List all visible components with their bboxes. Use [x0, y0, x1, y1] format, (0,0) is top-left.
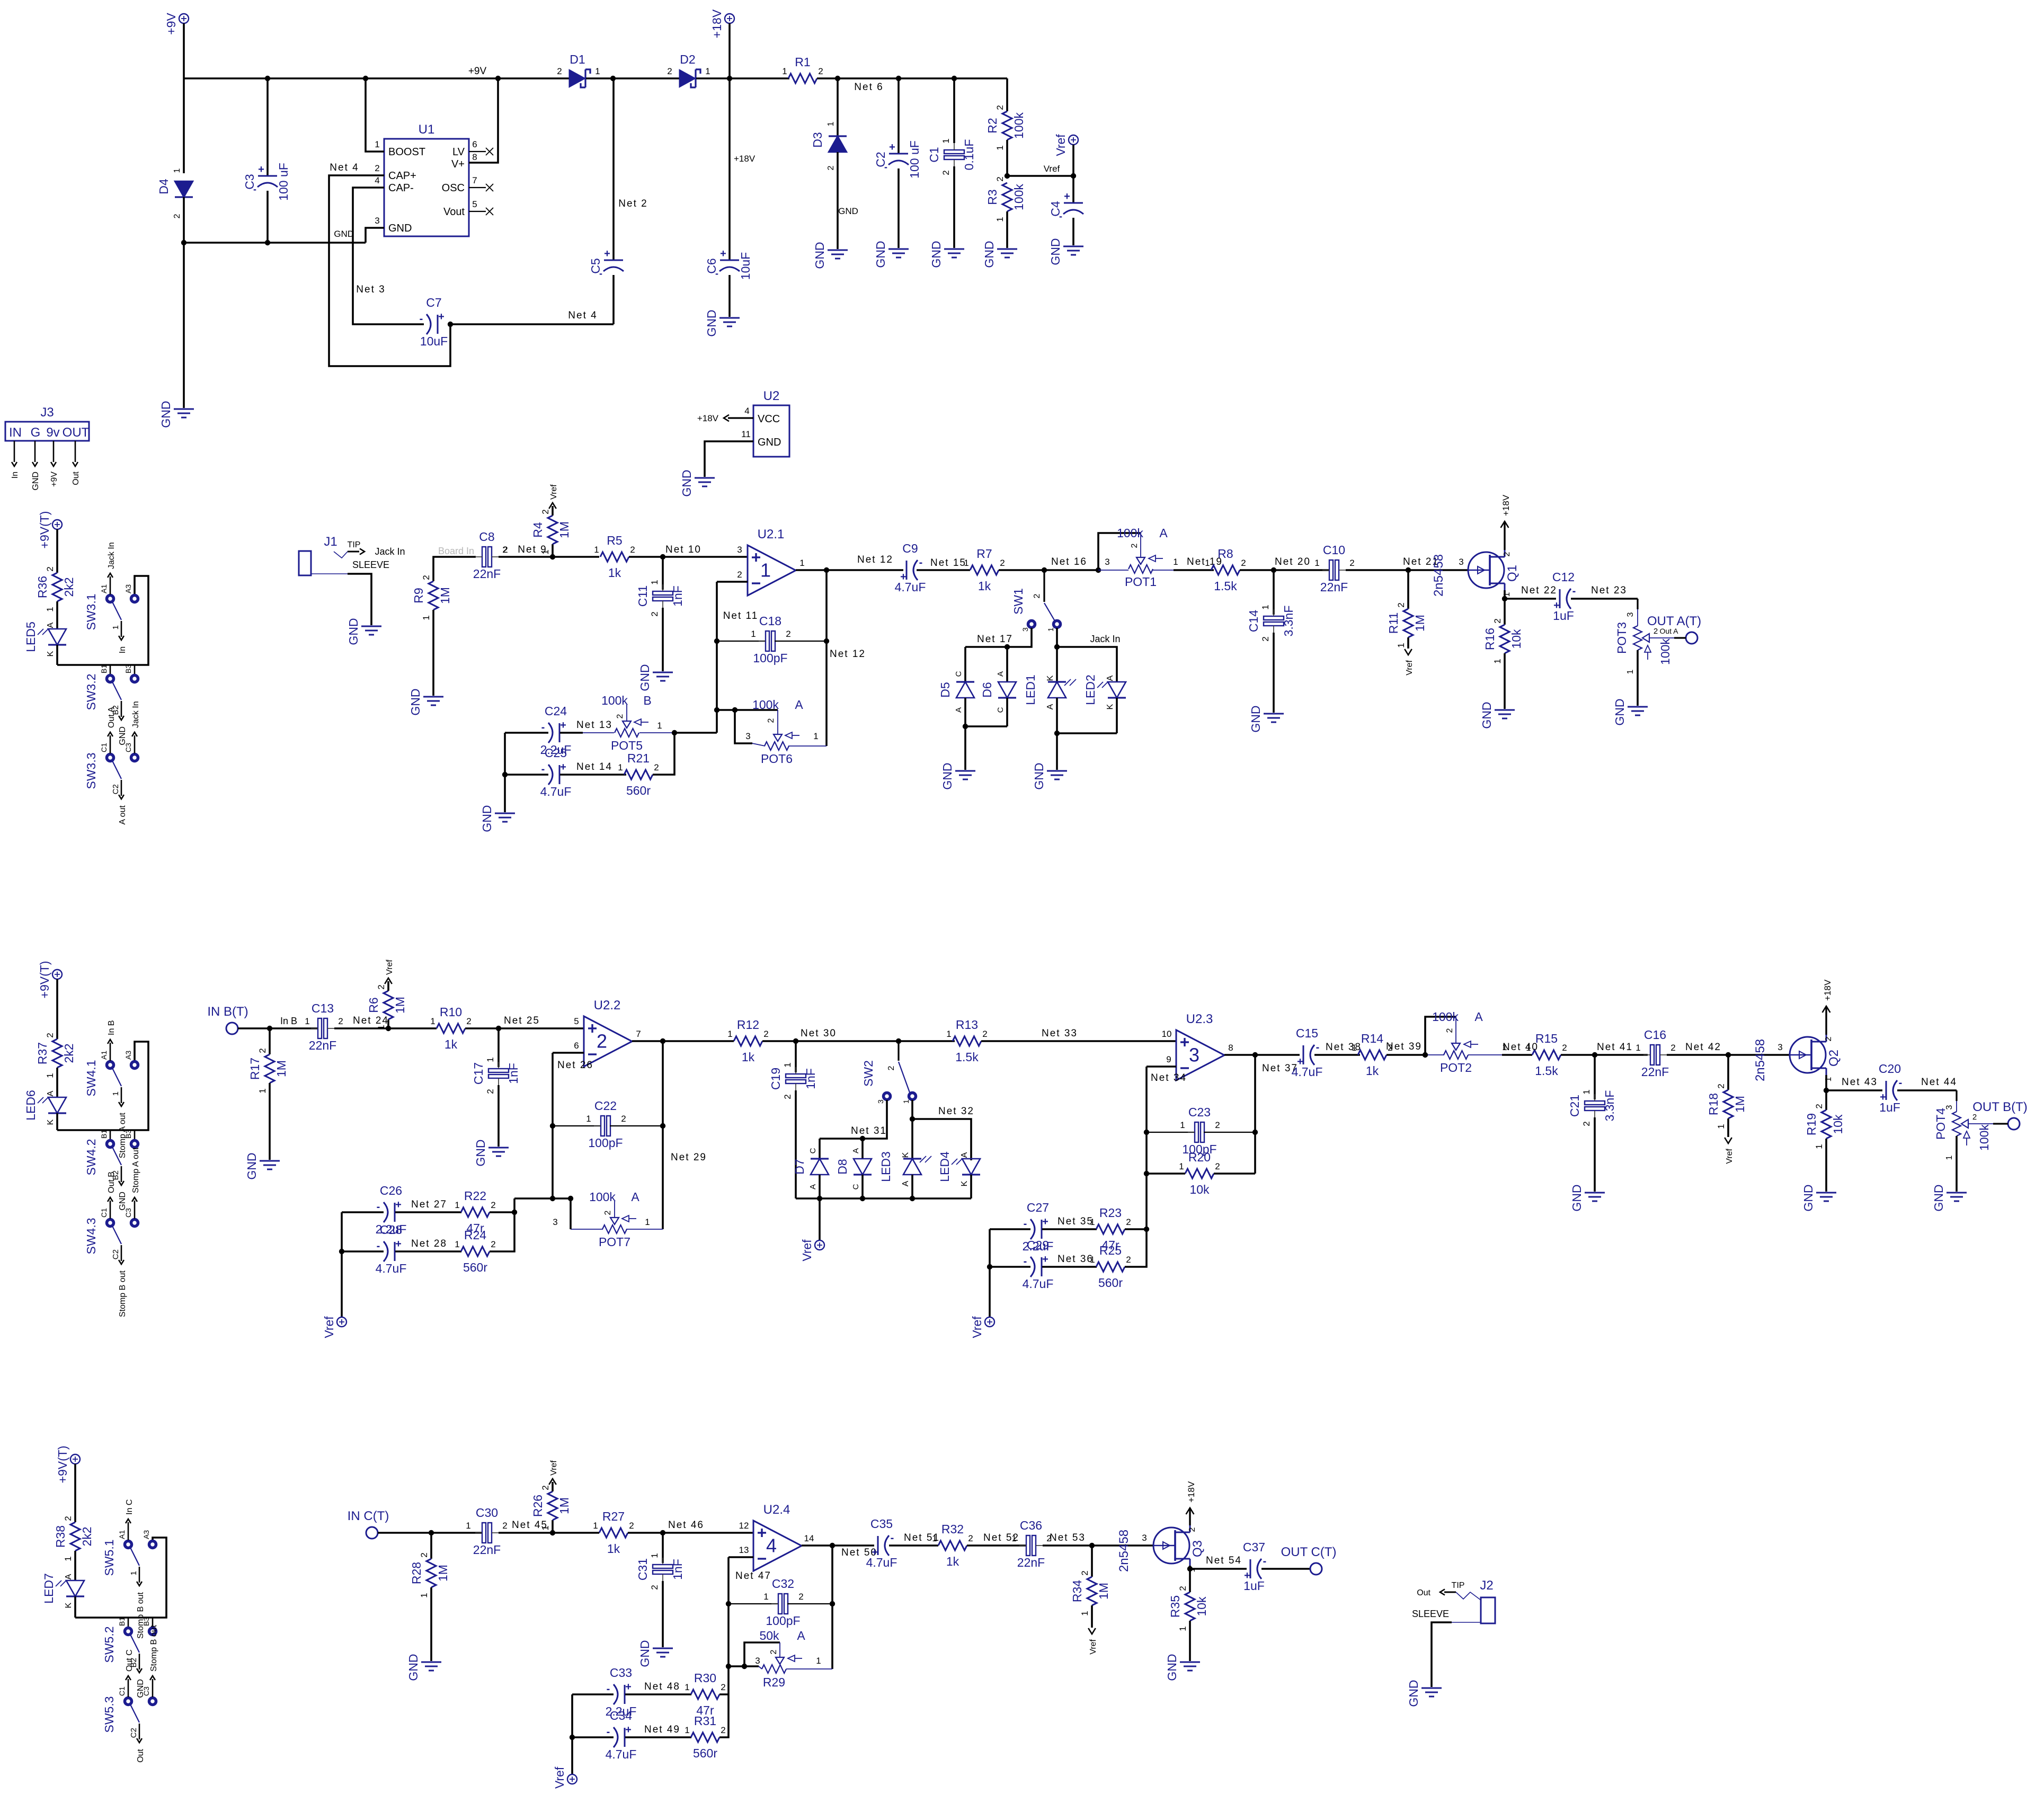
svg-text:2: 2: [721, 1725, 725, 1735]
svg-text:R23: R23: [1099, 1206, 1122, 1220]
svg-text:A: A: [960, 1152, 969, 1158]
svg-text:SW3.1: SW3.1: [84, 593, 98, 630]
svg-text:Jack In: Jack In: [131, 701, 140, 728]
svg-text:12: 12: [739, 1521, 749, 1531]
wire Net 4 to C5 bottom: [450, 323, 614, 325]
junction U2.4 output: [830, 1543, 835, 1548]
wire Net50 vertical: [831, 1546, 833, 1669]
svg-text:R16: R16: [1483, 628, 1497, 650]
IC U2 power pins: [753, 405, 789, 457]
svg-text:GND: GND: [929, 241, 943, 268]
svg-text:U1: U1: [419, 122, 435, 137]
ground for R3: [997, 248, 1017, 250]
svg-text:22nF: 22nF: [473, 567, 501, 581]
svg-text:2: 2: [1396, 602, 1406, 607]
svg-text:Vref: Vref: [553, 1766, 566, 1789]
svg-text:2: 2: [45, 1033, 55, 1037]
svg-text:+: +: [560, 720, 566, 731]
svg-text:+: +: [395, 1199, 402, 1211]
junction Net17 at D6: [1005, 644, 1010, 650]
svg-text:1: 1: [1260, 605, 1270, 609]
svg-text:2: 2: [1000, 558, 1005, 568]
svg-text:In C: In C: [125, 1499, 134, 1515]
svg-text:1uF: 1uF: [1243, 1579, 1265, 1593]
svg-text:Vref: Vref: [549, 484, 558, 500]
svg-text:3: 3: [553, 1217, 557, 1227]
junction Net 24: [386, 1026, 391, 1031]
svg-text:C26: C26: [380, 1184, 402, 1197]
junction Net 9: [550, 554, 555, 559]
junction top bus x505: [265, 76, 270, 81]
port IN B(T): [226, 1023, 238, 1034]
svg-text:R7: R7: [976, 547, 992, 561]
svg-text:C: C: [954, 671, 963, 677]
resistor R38 2k2: [74, 1464, 76, 1522]
svg-text:Net 26: Net 26: [557, 1060, 593, 1071]
svg-text:IN B(T): IN B(T): [207, 1005, 248, 1019]
U2 pin4 VCC to +18V: [728, 417, 753, 419]
svg-text:2: 2: [338, 1016, 343, 1026]
svg-text:3: 3: [1778, 1042, 1782, 1052]
svg-text:1: 1: [995, 217, 1005, 221]
svg-text:+9V: +9V: [468, 66, 487, 77]
svg-text:POT6: POT6: [761, 752, 793, 766]
svg-text:GND: GND: [159, 401, 173, 428]
svg-text:2: 2: [485, 1089, 495, 1094]
diode D5: [964, 647, 966, 682]
capacitor C11 1nF: [662, 557, 664, 590]
svg-text:1: 1: [964, 558, 968, 568]
svg-text:C3: C3: [142, 1686, 150, 1696]
svg-text:A: A: [851, 1148, 860, 1153]
svg-text:100 uF: 100 uF: [277, 163, 290, 201]
Q2 drain to +18V: [1825, 1006, 1827, 1035]
junction Net 10: [660, 554, 665, 559]
svg-text:1nF: 1nF: [671, 585, 685, 607]
capacitor C17 1nF: [497, 1028, 500, 1067]
supply Vref under D7: [815, 1240, 824, 1250]
svg-text:1uF: 1uF: [1553, 609, 1574, 623]
capacitor C23 100pF: [1147, 1132, 1195, 1133]
junction R11 top: [1406, 567, 1411, 573]
capacitor C1 0.1uF: [953, 78, 955, 143]
potentiometer POT3 100k output attenuator: [1633, 626, 1642, 650]
svg-text:Net 12: Net 12: [830, 649, 866, 660]
svg-text:+: +: [604, 248, 610, 260]
svg-text:GND: GND: [31, 472, 40, 491]
svg-text:GND: GND: [813, 242, 827, 269]
capacitor C2 100uF: [897, 78, 900, 154]
wire R8 to C10: [1240, 569, 1330, 571]
svg-text:2: 2: [1080, 1570, 1090, 1575]
junction pot7 bus: [568, 1196, 573, 1201]
junction Net47 at R29: [726, 1664, 731, 1669]
svg-text:C13: C13: [312, 1001, 334, 1015]
svg-text:2: 2: [1562, 1043, 1567, 1053]
wire LEDs to gnd: [1056, 733, 1058, 770]
svg-text:2: 2: [1126, 1217, 1131, 1227]
capacitor C26 2.2uF: [342, 1211, 384, 1213]
svg-text:Stomp B out: Stomp B out: [149, 1624, 158, 1672]
svg-text:10uF: 10uF: [420, 334, 448, 348]
svg-text:Out: Out: [1417, 1588, 1430, 1597]
svg-text:Net 25: Net 25: [504, 1015, 540, 1026]
junction +18V node: [727, 76, 732, 81]
svg-text:2: 2: [767, 718, 776, 723]
svg-text:C27: C27: [1027, 1201, 1049, 1214]
svg-text:SW1: SW1: [1011, 588, 1025, 615]
svg-text:Net 12: Net 12: [857, 554, 893, 565]
svg-text:-: -: [377, 1201, 380, 1213]
capacitor C25 4.7uF: [505, 774, 548, 776]
svg-text:1: 1: [618, 762, 623, 772]
svg-text:C15: C15: [1296, 1026, 1318, 1040]
Q1 source junction: [1502, 596, 1507, 601]
svg-text:C10: C10: [1323, 543, 1345, 557]
svg-text:-: -: [377, 1240, 380, 1252]
diode D2 schottky: [679, 69, 696, 87]
wire Net37 vertical: [1254, 1055, 1256, 1174]
capacitor C37 1uF: [1190, 1568, 1247, 1570]
svg-text:+: +: [625, 1724, 632, 1736]
svg-text:4: 4: [375, 175, 379, 185]
wire SW1 pin1 down to LEDs: [1056, 628, 1058, 647]
wire pot6 pin3 corner: [735, 710, 752, 743]
svg-text:Net 14: Net 14: [576, 761, 612, 772]
svg-text:Net 41: Net 41: [1597, 1042, 1633, 1053]
svg-text:10k: 10k: [1509, 629, 1523, 649]
svg-text:CAP-: CAP-: [388, 182, 414, 194]
svg-text:3: 3: [755, 1656, 760, 1666]
ground for R9: [423, 696, 443, 698]
svg-text:Vout: Vout: [443, 206, 465, 218]
svg-text:1: 1: [593, 1521, 598, 1531]
svg-text:2: 2: [818, 66, 823, 76]
svg-text:Net 48: Net 48: [644, 1681, 680, 1692]
wire R25 right up to Net34: [1125, 1229, 1147, 1267]
svg-text:1: 1: [946, 1029, 951, 1039]
svg-text:LED2: LED2: [1083, 674, 1097, 705]
svg-text:Net 4: Net 4: [568, 310, 597, 321]
svg-text:Vref: Vref: [549, 1460, 558, 1476]
svg-text:SW4.2: SW4.2: [84, 1139, 98, 1175]
svg-text:+18V: +18V: [710, 9, 724, 38]
ground main: [174, 408, 194, 410]
svg-text:4: 4: [766, 1535, 777, 1557]
svg-text:+9V(T): +9V(T): [56, 1446, 69, 1484]
svg-text:1: 1: [827, 121, 836, 126]
svg-text:SW5.1: SW5.1: [102, 1539, 116, 1576]
capacitor C7 10uF: [437, 315, 439, 334]
svg-text:2: 2: [1215, 1120, 1220, 1130]
U1 pin7 OSC no-connect: [469, 187, 486, 188]
LED1: [1056, 647, 1058, 682]
resistor R23 47r: [1096, 1224, 1125, 1234]
svg-text:C3: C3: [124, 743, 132, 752]
svg-text:GND: GND: [940, 762, 954, 789]
svg-text:GND: GND: [638, 1640, 652, 1667]
svg-text:+: +: [395, 1238, 402, 1250]
ground for C21: [1585, 1192, 1605, 1194]
svg-text:C3: C3: [243, 174, 256, 189]
svg-text:Vref: Vref: [1725, 1148, 1734, 1164]
svg-text:R24: R24: [464, 1228, 486, 1242]
svg-text:VCC: VCC: [758, 413, 780, 425]
svg-text:+9V(T): +9V(T): [38, 511, 51, 549]
svg-text:2: 2: [173, 214, 182, 218]
svg-text:B3: B3: [124, 1130, 132, 1139]
svg-text:3: 3: [1021, 627, 1029, 632]
junction Net 42: [1726, 1052, 1731, 1058]
svg-text:B: B: [643, 694, 651, 707]
svg-text:3: 3: [876, 1099, 885, 1104]
svg-text:C31: C31: [636, 1558, 650, 1580]
svg-text:1: 1: [111, 625, 120, 629]
capacitor C27 2.2uF: [990, 1228, 1030, 1230]
svg-text:1: 1: [1396, 643, 1406, 647]
svg-text:1: 1: [540, 549, 550, 554]
J2 SLEEVE wire: [1452, 1622, 1481, 1623]
svg-text:SLEEVE: SLEEVE: [1412, 1609, 1449, 1619]
IC U1 charge pump: [384, 139, 469, 236]
svg-text:C2: C2: [874, 152, 887, 167]
op-amp U2.2: [584, 1016, 632, 1067]
resistor R14 1k: [1358, 1050, 1387, 1060]
svg-text:1: 1: [932, 1533, 937, 1543]
capacitor C19 1nF: [795, 1041, 797, 1072]
svg-text:SW5.2: SW5.2: [102, 1626, 116, 1663]
Q3 drain to +18V: [1189, 1508, 1190, 1525]
svg-text:2: 2: [995, 105, 1005, 110]
svg-text:2: 2: [376, 984, 386, 989]
port OUT B(T): [2008, 1118, 2020, 1130]
resistor R19 10k: [1825, 1090, 1827, 1110]
supply +9V(T) for SW5: [70, 1454, 80, 1464]
wire R29 pin1 to Net50: [786, 1668, 832, 1669]
resistor R35 10k: [1189, 1569, 1191, 1592]
svg-text:U2: U2: [763, 389, 780, 403]
svg-text:C12: C12: [1552, 570, 1575, 584]
svg-text:Q2: Q2: [1827, 1050, 1841, 1067]
svg-text:SW5.3: SW5.3: [102, 1696, 116, 1733]
svg-text:100pF: 100pF: [766, 1614, 800, 1628]
svg-text:V+: V+: [451, 158, 465, 170]
svg-text:Net 34: Net 34: [1151, 1072, 1187, 1083]
svg-text:1: 1: [173, 168, 182, 173]
svg-text:2: 2: [887, 1065, 896, 1070]
ground for C4: [1063, 246, 1083, 247]
resistor R8 1.5k: [1211, 565, 1240, 575]
svg-text:2: 2: [1824, 1036, 1833, 1041]
svg-text:0.1uF: 0.1uF: [962, 139, 976, 171]
svg-text:4.7uF: 4.7uF: [1292, 1065, 1323, 1079]
svg-text:C1: C1: [100, 743, 108, 752]
resistor R12 1k: [734, 1036, 762, 1046]
svg-text:Jack In: Jack In: [375, 546, 405, 557]
junction C28 left: [339, 1249, 344, 1254]
ground for C31: [653, 1648, 673, 1649]
svg-text:11: 11: [741, 429, 751, 439]
svg-text:2: 2: [597, 1031, 607, 1052]
svg-text:GND: GND: [982, 241, 996, 268]
svg-text:CAP+: CAP+: [388, 170, 416, 182]
J3 pin arrow GND: [34, 441, 36, 462]
svg-text:C37: C37: [1243, 1540, 1265, 1554]
svg-text:BOOST: BOOST: [388, 146, 425, 158]
wire Net47 vertical: [727, 1557, 730, 1694]
svg-text:2: 2: [982, 1029, 987, 1039]
svg-text:560r: 560r: [693, 1746, 717, 1760]
potentiometer POT7 100k A: [571, 1229, 603, 1230]
svg-text:22nF: 22nF: [1017, 1556, 1045, 1569]
svg-text:5: 5: [574, 1016, 579, 1026]
svg-text:1: 1: [540, 1525, 550, 1530]
capacitor C16 22nF: [1650, 1045, 1654, 1065]
junction C25 left: [502, 772, 508, 777]
potentiometer POT6 100k A: [777, 710, 778, 734]
resistor R36 2k2: [56, 529, 58, 573]
svg-text:SW3.2: SW3.2: [84, 673, 98, 710]
svg-text:A1: A1: [100, 584, 108, 593]
svg-text:9: 9: [1166, 1054, 1171, 1064]
junction D5 bottom: [963, 724, 968, 729]
svg-text:Net 23: Net 23: [1591, 585, 1627, 596]
svg-text:GND: GND: [408, 688, 422, 715]
capacitor C22 100pF: [553, 1125, 601, 1126]
resistor R6 1M to Vref: [387, 1019, 389, 1028]
wire D5/D6 to gnd: [964, 726, 966, 770]
svg-text:GND: GND: [1480, 701, 1494, 729]
svg-text:+18V: +18V: [697, 413, 719, 423]
svg-text:100pF: 100pF: [753, 651, 787, 665]
svg-text:Net 43: Net 43: [1842, 1077, 1878, 1088]
svg-text:A: A: [46, 1090, 55, 1096]
svg-text:2: 2: [737, 570, 742, 580]
svg-text:1: 1: [430, 1016, 435, 1026]
svg-text:1: 1: [1090, 1217, 1095, 1227]
svg-text:2: 2: [419, 1552, 429, 1557]
wire Net 29 vertical: [662, 1041, 664, 1229]
svg-text:Stomp A out: Stomp A out: [131, 1147, 140, 1193]
junction Net 25: [496, 1026, 501, 1031]
svg-text:POT7: POT7: [599, 1235, 630, 1249]
svg-text:R8: R8: [1217, 547, 1233, 561]
svg-text:D1: D1: [570, 52, 585, 66]
capacitor C5 on Net 2: [612, 78, 615, 260]
wire LED bottoms: [1057, 732, 1117, 734]
svg-text:R14: R14: [1361, 1032, 1383, 1045]
svg-text:2: 2: [375, 163, 379, 173]
svg-text:C6: C6: [705, 258, 718, 273]
svg-text:Stomp B out: Stomp B out: [118, 1270, 127, 1317]
svg-text:C2: C2: [111, 1249, 120, 1259]
svg-text:3.3nF: 3.3nF: [1282, 606, 1295, 637]
ground for C1: [944, 248, 964, 250]
svg-text:1.5k: 1.5k: [1214, 579, 1237, 593]
svg-text:A: A: [996, 671, 1005, 677]
svg-text:1: 1: [995, 145, 1005, 150]
svg-text:Net 31: Net 31: [851, 1125, 887, 1136]
junction D7 bottom: [817, 1196, 822, 1201]
svg-text:2: 2: [45, 566, 55, 571]
svg-text:GND: GND: [1407, 1680, 1420, 1707]
svg-text:A: A: [1474, 1010, 1483, 1024]
U1 pin8 V+ wire: [469, 78, 498, 163]
svg-text:Net 36: Net 36: [1057, 1254, 1094, 1265]
capacitor C29 4.7uF: [990, 1266, 1030, 1268]
svg-text:GND: GND: [406, 1654, 420, 1681]
svg-text:GND: GND: [245, 1152, 259, 1179]
svg-text:2: 2: [827, 165, 836, 170]
svg-text:1: 1: [783, 1062, 793, 1067]
resistor R22 47r: [461, 1207, 490, 1217]
svg-text:1: 1: [421, 615, 431, 620]
svg-text:1: 1: [45, 607, 55, 611]
svg-text:D5: D5: [938, 682, 952, 697]
diode D4 reverse protection: [183, 78, 185, 173]
svg-text:1: 1: [760, 559, 771, 581]
junction SW2 node: [896, 1038, 901, 1044]
svg-text:C5: C5: [589, 258, 602, 273]
svg-text:A: A: [1046, 704, 1055, 709]
svg-text:U2.2: U2.2: [594, 998, 621, 1013]
svg-text:22nF: 22nF: [1320, 580, 1348, 594]
svg-text:+9V(T): +9V(T): [38, 961, 51, 999]
junction Net 6 at D3: [835, 76, 840, 81]
svg-text:1: 1: [1581, 1089, 1592, 1094]
diode D6: [1006, 647, 1008, 682]
capacitor C9 4.7uF: [827, 569, 903, 571]
svg-text:+: +: [438, 311, 445, 323]
svg-text:1: 1: [305, 1016, 309, 1026]
potentiometer POT2 100k A: [1455, 1017, 1456, 1043]
supply Vref symbol: [1069, 135, 1078, 145]
svg-text:1.5k: 1.5k: [1535, 1064, 1558, 1078]
svg-text:C7: C7: [426, 296, 441, 309]
svg-text:IN C(T): IN C(T): [348, 1509, 389, 1523]
svg-text:Vref: Vref: [970, 1316, 984, 1338]
svg-text:1: 1: [685, 1682, 689, 1692]
svg-text:Net 15: Net 15: [930, 557, 966, 569]
svg-text:1: 1: [485, 1057, 495, 1062]
svg-text:1: 1: [685, 1725, 689, 1735]
svg-text:R28: R28: [410, 1562, 423, 1584]
svg-text:C20: C20: [1879, 1062, 1901, 1076]
svg-text:Net 54: Net 54: [1206, 1555, 1242, 1566]
junction Net26 bottom: [550, 1196, 555, 1201]
wire IN C to junction: [378, 1532, 431, 1534]
U2.3 pin9 wire: [1147, 1065, 1176, 1068]
wire LED to switch row B: [74, 1596, 76, 1618]
svg-text:Out B: Out B: [107, 1171, 116, 1193]
svg-text:1: 1: [763, 1592, 768, 1602]
junction LED1 top: [1054, 644, 1060, 650]
svg-text:R27: R27: [602, 1509, 625, 1523]
svg-text:1: 1: [594, 545, 599, 555]
svg-text:2: 2: [421, 575, 431, 580]
svg-text:Stomp B out: Stomp B out: [136, 1592, 145, 1639]
svg-text:1k: 1k: [978, 579, 991, 593]
svg-text:R29: R29: [763, 1675, 785, 1689]
svg-text:R18: R18: [1707, 1093, 1720, 1115]
svg-text:+: +: [720, 248, 726, 260]
svg-text:1: 1: [657, 721, 662, 731]
wire +9V to top bus: [183, 23, 185, 78]
resistor R4 1M pullup to Vref: [552, 544, 554, 557]
svg-text:1: 1: [375, 139, 379, 149]
svg-text:Net 20: Net 20: [1275, 556, 1311, 567]
svg-text:2: 2: [491, 1239, 495, 1249]
